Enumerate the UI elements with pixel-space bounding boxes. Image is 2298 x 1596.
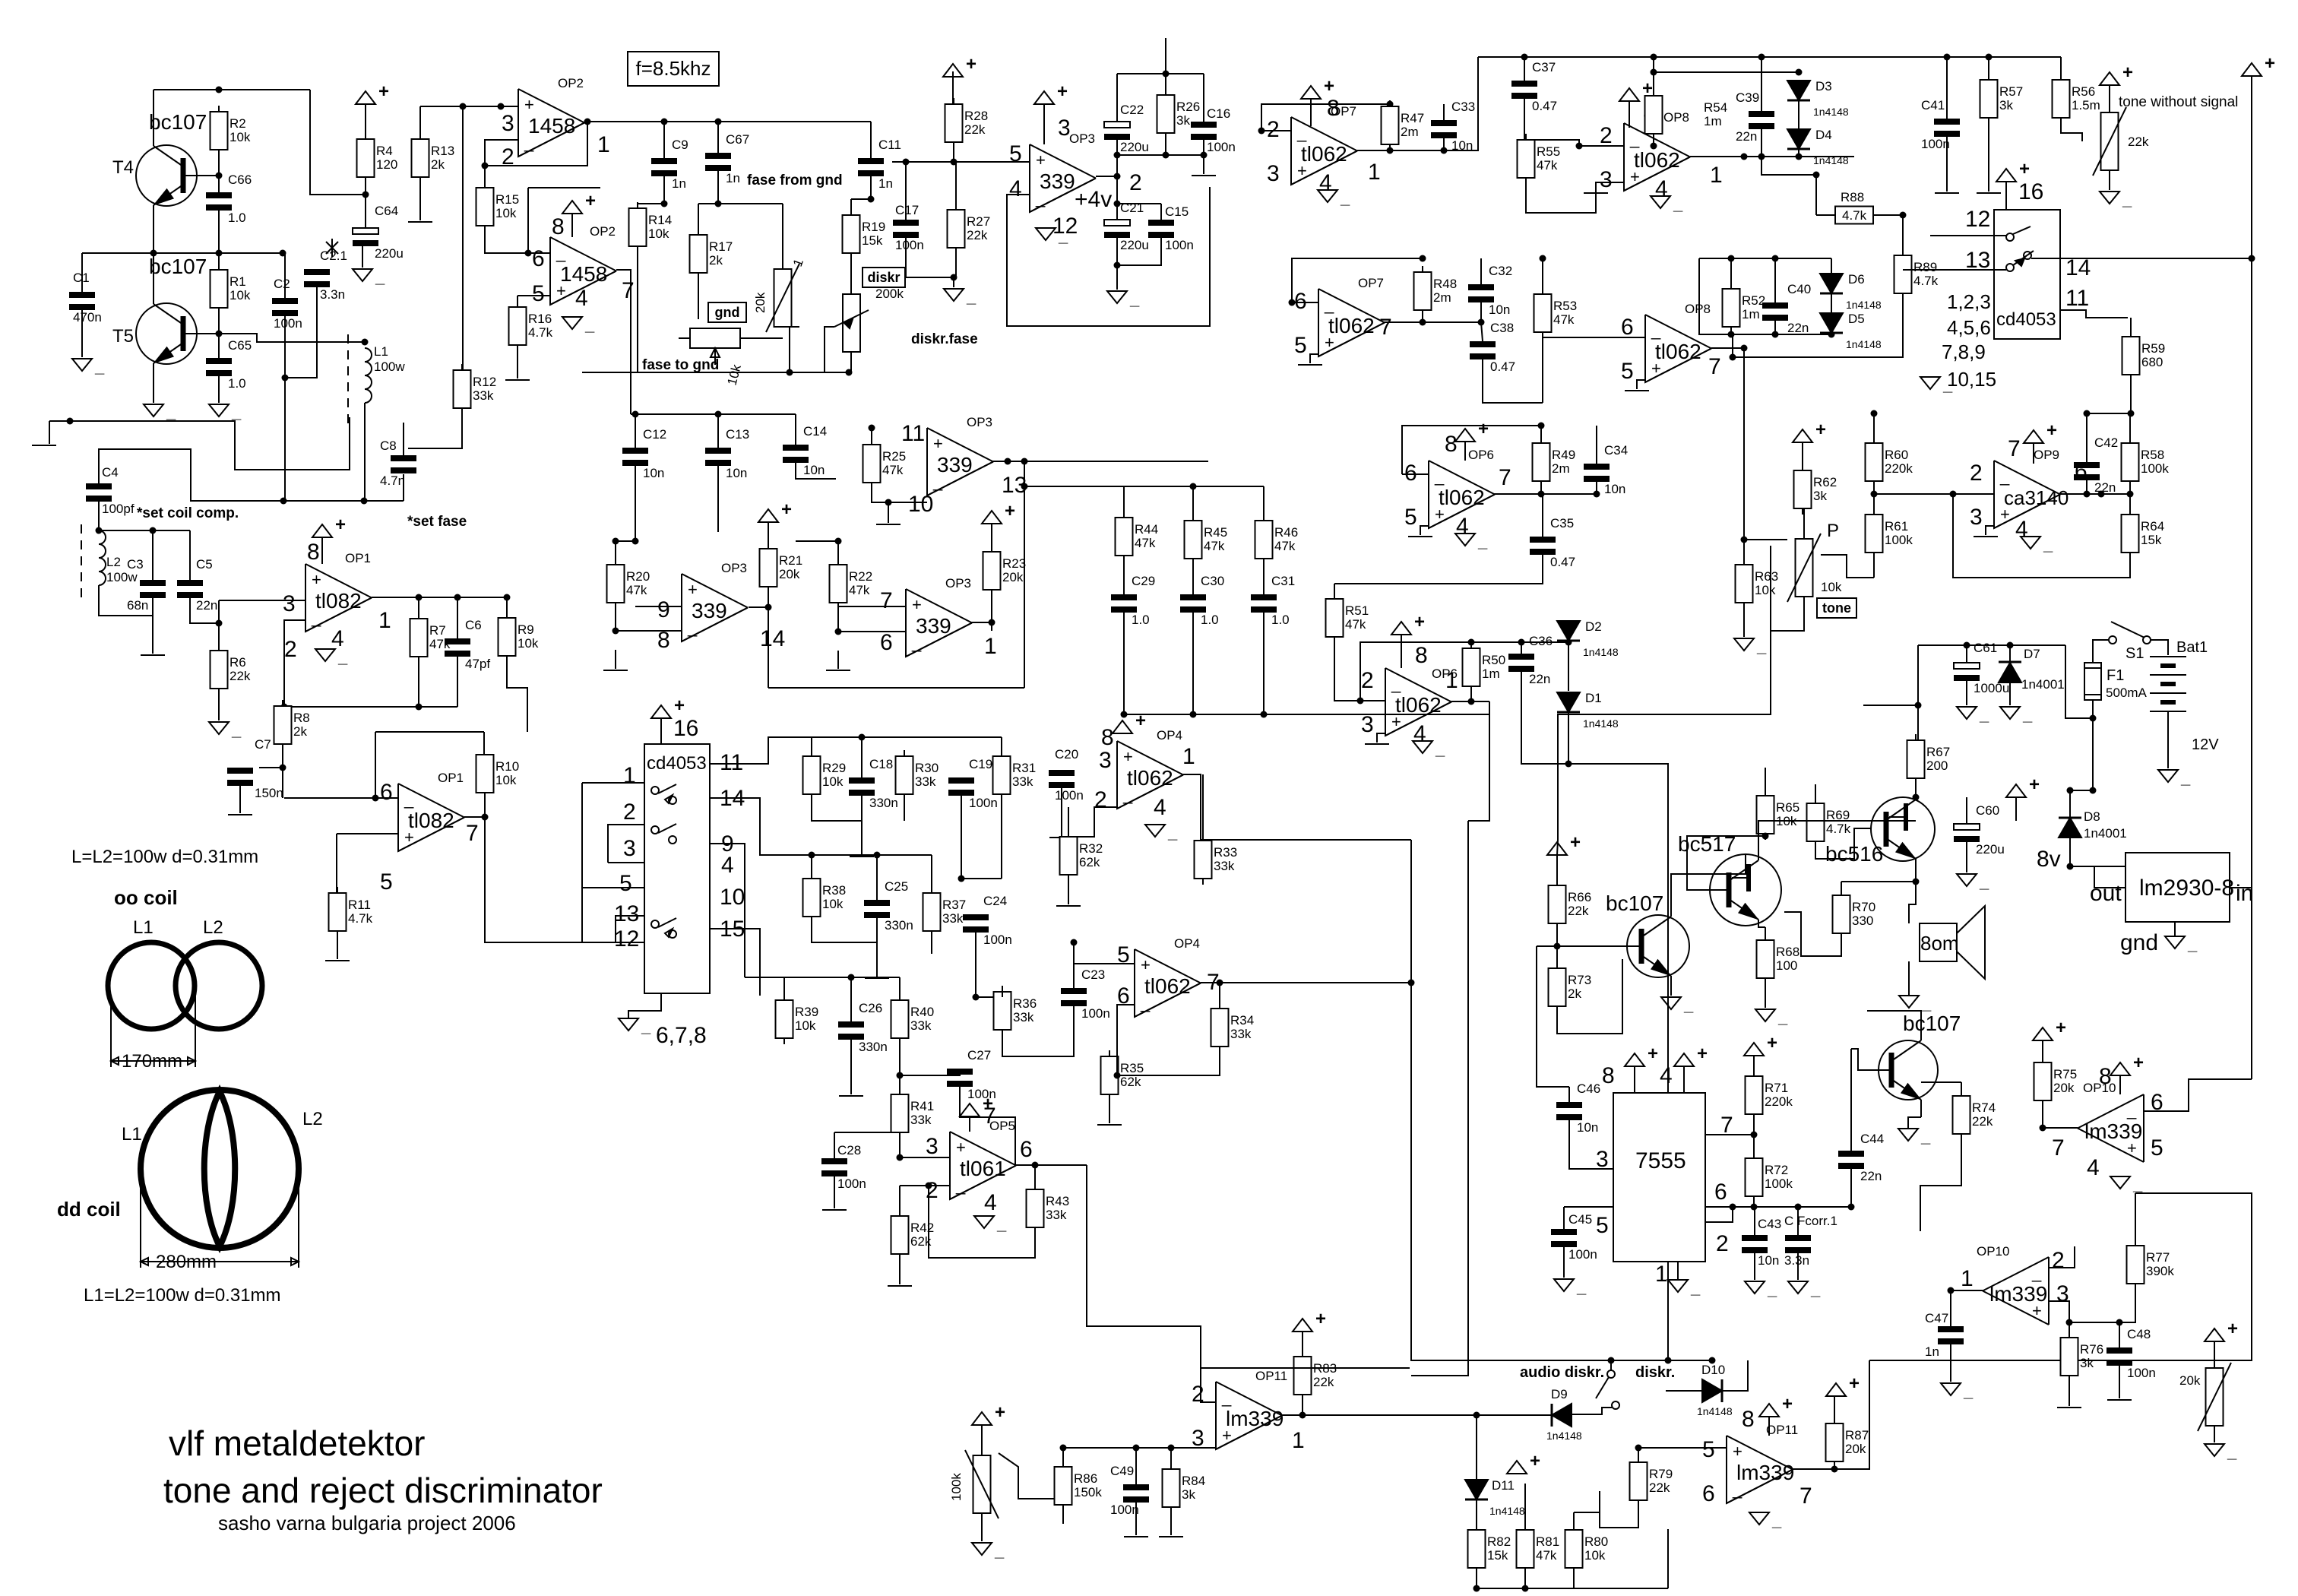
wire bc107c coll (1867, 1011, 1921, 1040)
capacitor C9 1n (651, 138, 688, 191)
wire R62 top (1802, 442, 1803, 470)
svg-text:C37: C37 (1532, 60, 1556, 74)
wire spk top (1909, 882, 1916, 923)
wire C45 dn (1563, 1247, 1565, 1278)
wire R86 top (1060, 1445, 1067, 1468)
wire pot wire r (740, 337, 783, 339)
svg-text:5: 5 (1621, 359, 1634, 384)
resistor R27 22k (948, 204, 991, 254)
wire R6 dn (218, 689, 220, 720)
resistor R58 100k (2122, 437, 2170, 487)
wire R23 top (991, 524, 992, 552)
wire pwr rail in (1863, 705, 1918, 706)
svg-text:C15: C15 (1165, 204, 1189, 219)
wire C20 top (1061, 788, 1062, 836)
capacitor C21 220u (1104, 201, 1149, 252)
wire fb horiz 247 (528, 187, 600, 188)
resistor R65 10k (1757, 790, 1800, 840)
svg-text:OP3: OP3 (721, 561, 747, 575)
wire trim C67 tie (718, 203, 783, 204)
ground C48 (2107, 1399, 2132, 1401)
svg-text:+: + (1005, 501, 1015, 521)
svg-text:lm339: lm339 (1226, 1407, 1284, 1430)
wire 100k dn (981, 1513, 983, 1541)
wire R81 top (1524, 1484, 1526, 1530)
wire R4-C64 (362, 177, 369, 228)
wire R30 dn (904, 794, 905, 821)
wire C23 top (1071, 939, 1078, 989)
wire R14 top (638, 203, 664, 204)
wire C25 top (876, 855, 878, 900)
svg-text:+: + (2019, 159, 2030, 179)
ground OP6b (1413, 739, 1445, 758)
svg-text:C17: C17 (895, 203, 919, 217)
svg-text:_: _ (2132, 1175, 2143, 1194)
ground C7 (228, 814, 252, 815)
svg-text:6: 6 (1702, 1481, 1715, 1506)
svg-text:R51: R51 (1345, 603, 1369, 618)
pin cd4053 p12 (614, 926, 639, 952)
svg-text:D4: D4 (1815, 128, 1832, 142)
ground C43 (1745, 1280, 1777, 1299)
svg-text:+: + (674, 695, 685, 716)
resistor R15 10k (476, 182, 520, 232)
svg-text:C65: C65 (228, 338, 252, 353)
wire bus 545 (631, 411, 796, 418)
svg-text:R29: R29 (822, 761, 846, 775)
wire R20 wire (616, 540, 635, 542)
svg-text:22n: 22n (1787, 321, 1809, 335)
svg-text:L=L2=100w d=0.31mm: L=L2=100w d=0.31mm (71, 847, 258, 867)
wire D11 top (1476, 1415, 1477, 1480)
resistor R63 10k (1736, 559, 1779, 609)
resistor R37 33k (923, 887, 967, 937)
svg-text:8: 8 (1101, 725, 1114, 750)
op-amp OP3a 339 (1009, 116, 1142, 239)
resistor R68 100 (1757, 934, 1800, 984)
svg-text:R34: R34 (1230, 1013, 1254, 1028)
svg-text:_: _ (1999, 467, 2010, 486)
svg-text:R47: R47 (1401, 111, 1424, 125)
svg-text:1: 1 (1182, 744, 1195, 769)
potentiometer 20k trim 20k (766, 264, 799, 332)
wire OP7b inm (1289, 299, 1319, 306)
svg-text:5: 5 (619, 871, 632, 896)
wire D3-D4 (1798, 100, 1799, 129)
capacitor C24 100n (963, 894, 1012, 947)
wire trim wiper (790, 327, 799, 372)
svg-text:OP7: OP7 (1358, 276, 1384, 290)
svg-text:C27: C27 (967, 1048, 991, 1062)
svg-text:+: + (2029, 774, 2040, 795)
wire f1 bus top (811, 737, 812, 756)
svg-text:_: _ (2022, 705, 2033, 724)
ground 22k (2100, 190, 2132, 209)
wire OP3a out w (1096, 176, 1117, 177)
wire C5 top (189, 530, 191, 580)
resistor R26 3k (1157, 95, 1201, 133)
wire OP10b in2 (2049, 1246, 2075, 1268)
svg-text:4.7n: 4.7n (380, 473, 405, 488)
svg-text:100: 100 (1776, 958, 1797, 973)
wire R58 rail (2087, 413, 2130, 414)
wire R58 dn (2129, 481, 2131, 494)
wire C27 wires (900, 1069, 960, 1075)
wire C13 dn (717, 466, 719, 532)
svg-text:D1: D1 (1585, 691, 1602, 705)
wire C8 up (403, 423, 404, 455)
wire C18 dn (861, 796, 863, 855)
wire D8 dn (2067, 838, 2126, 870)
wire OP10a pwr (2119, 1075, 2121, 1094)
ground OP6b inp (1365, 743, 1389, 745)
pin 7555 p4 (1660, 1063, 1673, 1088)
svg-text:1n4148: 1n4148 (1489, 1505, 1525, 1517)
wire R87 dn (1834, 1461, 1835, 1469)
svg-text:33k: 33k (1013, 1010, 1034, 1024)
wire OP10b in3 (2049, 1301, 2073, 1326)
svg-text:5: 5 (2151, 1135, 2163, 1161)
cd4053r sw1 (2006, 226, 2031, 241)
svg-text:5: 5 (380, 869, 393, 895)
svg-text:fase to gnd: fase to gnd (642, 357, 719, 373)
svg-text:C19: C19 (969, 757, 992, 771)
wire cd4053 p14 stub (710, 798, 775, 855)
wire OP3a fb loop (1007, 187, 1210, 326)
resistor R39 10k (776, 994, 819, 1044)
ground R35 (1097, 1124, 1122, 1126)
svg-text:C46: C46 (1577, 1081, 1600, 1096)
ground C16 (1192, 175, 1216, 176)
ground OP7b (1298, 364, 1322, 366)
wire R77 dn (2119, 1284, 2135, 1322)
wire out bus (1471, 701, 1489, 702)
wire rail 97 (1117, 71, 1204, 78)
wire bat minus route (2094, 866, 2125, 888)
svg-text:+: + (1648, 1043, 1658, 1064)
svg-text:+: + (1057, 81, 1068, 102)
wire R57 dn (1988, 118, 1989, 192)
pin 7555 p5 (1596, 1213, 1609, 1238)
capacitor C17 100n (893, 203, 924, 252)
resistor R51 47k (1326, 593, 1369, 643)
label 12V (2192, 736, 2219, 753)
pin cd4053r p14 (2065, 255, 2091, 280)
label f=8.5khz box (628, 52, 719, 86)
svg-text:1: 1 (623, 763, 636, 788)
wire C14 top (795, 414, 796, 445)
svg-text:_: _ (1771, 1511, 1782, 1530)
wire OP3b out dn (1021, 458, 1028, 689)
wire C49 dn (1135, 1503, 1137, 1535)
svg-text:R28: R28 (964, 109, 988, 123)
wire R63 wire (1744, 539, 1787, 540)
wire cd4053r p13 wire (1903, 269, 2006, 271)
resistor R12 33k (454, 364, 497, 414)
svg-text:220u: 220u (1120, 238, 1149, 252)
wire P dn (1771, 546, 1804, 631)
ground Bat1 (2158, 768, 2191, 787)
svg-text:tone: tone (1822, 600, 1851, 616)
ground C41 (1935, 192, 1959, 194)
wire R64 dn (1953, 494, 2130, 578)
wire 200k dn (638, 352, 853, 376)
diode D2 1n4148 (1557, 619, 1619, 658)
resistor R46 47k (1255, 515, 1299, 565)
svg-text:1m: 1m (1704, 114, 1722, 128)
ground 100k (972, 1541, 1005, 1560)
svg-text:C4: C4 (102, 465, 119, 480)
wire OP1b inm (284, 795, 398, 802)
pin cd4053 p9 (721, 831, 734, 857)
resistor R54 1m (1645, 90, 1728, 140)
svg-text:4: 4 (721, 853, 734, 878)
svg-text:R14: R14 (648, 213, 672, 227)
svg-text:10k: 10k (1755, 583, 1776, 597)
resistor R81 47k (1517, 1524, 1560, 1574)
svg-text:470n: 470n (73, 310, 102, 325)
wire fb bus (284, 704, 457, 711)
wire C12 dn (632, 466, 639, 545)
wire R7 top (418, 597, 419, 619)
capacitor C7 150n (227, 737, 283, 800)
wire R42 dn (899, 1254, 901, 1284)
resistor R82 15k (1468, 1524, 1511, 1574)
svg-text:OP11: OP11 (1255, 1369, 1287, 1383)
wire OP1b fb top (375, 731, 484, 733)
wire right edge vertical (2251, 76, 2252, 1079)
wire C39 dn (1758, 129, 1765, 160)
wire cd4053 p9 stub (710, 844, 745, 977)
IC lm2930-8 (2125, 853, 2234, 922)
wire R60-R61 (1871, 481, 1878, 515)
wire C30 dn (1192, 613, 1194, 669)
svg-text:OP8: OP8 (1663, 110, 1689, 125)
ground OP7a (1318, 188, 1350, 207)
power OP1a (312, 515, 346, 537)
wire bc107b coll (1671, 854, 1746, 917)
op-amp OP10b lm339 (1961, 1244, 2069, 1325)
wire R32 top (1068, 807, 1117, 837)
resistor R1 10k (210, 264, 251, 314)
resistor R88 4.7k (1835, 190, 1873, 224)
wire audio bus (1512, 1357, 1716, 1364)
wire R71 top (1753, 1056, 1755, 1076)
svg-text:+: + (2056, 1018, 2066, 1038)
power 100k (972, 1402, 1005, 1425)
wire C40 top (1774, 258, 1776, 302)
wire fb rail (1471, 641, 1568, 643)
wire R53 dn (1542, 332, 1543, 403)
svg-text:1m: 1m (1482, 667, 1500, 681)
svg-text:C14: C14 (803, 424, 827, 439)
svg-text:1458: 1458 (528, 114, 575, 138)
svg-text:2: 2 (623, 800, 636, 825)
wire OP5 pwr (969, 1116, 970, 1132)
svg-text:20k: 20k (2053, 1081, 2075, 1095)
svg-text:R68: R68 (1776, 945, 1799, 959)
svg-text:tl062: tl062 (1655, 340, 1701, 363)
transistor bc107c (1879, 1012, 1961, 1100)
capacitor C2 100n (272, 277, 302, 331)
wire R53 top (1540, 255, 1546, 295)
svg-text:bc107: bc107 (149, 255, 207, 278)
svg-text:22n: 22n (196, 598, 217, 613)
svg-text:6: 6 (880, 630, 893, 655)
svg-text:R74: R74 (1972, 1100, 1996, 1115)
wire D7 dn (2009, 682, 2011, 705)
svg-text:10k: 10k (822, 774, 844, 789)
cd4053 switch 3 (651, 918, 676, 938)
capacitor C23 100n (1061, 967, 1110, 1021)
label cd4053r pins d (1947, 368, 1996, 391)
wire C67 top (717, 122, 719, 153)
wire R10 top (483, 732, 485, 755)
wire C48 top (2116, 1319, 2123, 1348)
resistor R43 33k (1027, 1183, 1070, 1233)
svg-text:1n4148: 1n4148 (1813, 106, 1849, 118)
label coil eq 1 (71, 847, 258, 867)
wire R44-C29 (1123, 556, 1125, 594)
svg-text:1n: 1n (1925, 1344, 1939, 1359)
wire D9 wire r (1572, 1408, 1612, 1414)
svg-text:330: 330 (1852, 914, 1873, 928)
svg-text:C38: C38 (1490, 321, 1514, 335)
wire R12 top (462, 106, 464, 370)
wire f3 top (783, 977, 785, 1000)
svg-text:_: _ (1690, 1278, 1701, 1297)
wire top rail (1478, 54, 2061, 61)
wire R25 dn (872, 483, 927, 506)
power R83 (1293, 1309, 1326, 1332)
svg-text:22k: 22k (229, 669, 251, 683)
wire R13 dn (419, 177, 421, 220)
wire fb vert 695 (527, 188, 529, 253)
ground OP5 (974, 1214, 1007, 1233)
wire R27 gnd (953, 277, 954, 287)
svg-text:C66: C66 (228, 173, 252, 187)
svg-text:170mm: 170mm (122, 1051, 182, 1072)
wire R53 to OP8b (1543, 337, 1645, 338)
svg-text:100n: 100n (837, 1176, 866, 1191)
svg-text:3: 3 (623, 836, 636, 861)
wire inp bus 140 (420, 103, 518, 110)
svg-text:22k: 22k (1972, 1114, 1993, 1129)
wire R29 dn (812, 794, 862, 821)
resistor R21 20k (760, 543, 803, 593)
wire R73 top (1556, 946, 1558, 968)
ground spk (1899, 994, 1932, 1013)
svg-text:R81: R81 (1536, 1534, 1559, 1549)
svg-text:F1: F1 (2106, 667, 2124, 684)
wire R80 wire (1574, 1491, 1600, 1512)
wire rail 204 (1114, 152, 1208, 159)
wire OP6b out route (1468, 701, 1489, 821)
wire OP6b inp gnd (1377, 733, 1385, 743)
wire R19 v (850, 199, 852, 215)
IC 7555 (1613, 1093, 1705, 1262)
label 20k lab (753, 292, 768, 313)
svg-text:+: + (2227, 1319, 2238, 1339)
wire OP1a pwr (321, 537, 323, 564)
capacitor C38 0.47 (1470, 321, 1515, 374)
svg-text:OP1: OP1 (438, 771, 464, 785)
label diskr label (1635, 1364, 1675, 1381)
svg-text:R19: R19 (862, 220, 885, 234)
pin 7555 p2 (1716, 1231, 1729, 1256)
svg-text:L1=L2=100w d=0.31mm: L1=L2=100w d=0.31mm (84, 1285, 281, 1306)
capacitor C29 1.0 (1111, 574, 1155, 627)
wire C34 top (1596, 426, 1597, 464)
svg-text:fase from gnd: fase from gnd (747, 173, 843, 188)
wire C16 dn (1203, 140, 1204, 174)
svg-text:22k: 22k (967, 228, 988, 242)
wire R63 dn (1743, 603, 1745, 637)
svg-text:339: 339 (692, 599, 727, 622)
wire OP1a out (372, 594, 511, 601)
svg-text:C8: C8 (380, 439, 397, 453)
wire R34 dn (1109, 1047, 1220, 1075)
svg-text:7: 7 (622, 278, 635, 303)
wire R25 top (869, 425, 875, 445)
svg-text:R66: R66 (1568, 890, 1591, 904)
svg-text:33k: 33k (473, 388, 494, 403)
svg-text:680: 680 (2141, 355, 2163, 369)
svg-text:C44: C44 (1860, 1132, 1884, 1146)
pin 7555 p6 (1714, 1180, 1727, 1205)
svg-text:tl061: tl061 (960, 1157, 1006, 1180)
svg-text:R2: R2 (229, 116, 246, 131)
op-amp OP4b tl062 (1117, 936, 1220, 1017)
svg-text:+: + (312, 570, 321, 589)
svg-text:L2: L2 (302, 1109, 323, 1129)
wire bc516 em (1915, 859, 1917, 882)
wire bot bus (1473, 1585, 1669, 1592)
capacitor C67 1n (705, 132, 749, 185)
wire pwr rail top (1918, 642, 2065, 649)
power 20k out (2205, 1319, 2238, 1341)
wire cd4053 p2 stub (608, 825, 644, 863)
wire OP1b inp (337, 833, 398, 834)
svg-text:D2: D2 (1585, 619, 1602, 634)
power OP5 (960, 1094, 993, 1116)
coil dd lens (204, 1091, 236, 1246)
svg-text:tl062: tl062 (1634, 148, 1680, 172)
svg-text:8: 8 (1415, 643, 1428, 668)
wire D8 tie (2070, 790, 2093, 791)
svg-text:T4: T4 (112, 157, 134, 178)
svg-text:3: 3 (1099, 748, 1112, 773)
svg-text:5: 5 (1404, 505, 1417, 530)
svg-text:6: 6 (532, 246, 545, 271)
wire OP4a out route (1188, 774, 1201, 840)
wire OP3c gnd (615, 650, 616, 669)
wire star2 (326, 242, 338, 254)
capacitor C43 10n (1742, 1217, 1781, 1268)
svg-text:10n: 10n (803, 463, 825, 477)
op-amp OP3d 339 (880, 576, 997, 659)
wire OP6b out (1451, 698, 1475, 705)
wire C40 dn (1772, 321, 1779, 338)
wire R32 dn (1068, 875, 1069, 904)
svg-text:330n: 330n (885, 918, 913, 933)
wire R74 top (1921, 1081, 1961, 1083)
svg-text:+: + (956, 1138, 966, 1157)
wire OP11b pwr (1768, 1417, 1770, 1436)
wire OP3d out (971, 619, 995, 626)
svg-text:20k: 20k (2179, 1373, 2201, 1388)
svg-text:2m: 2m (1552, 461, 1570, 476)
